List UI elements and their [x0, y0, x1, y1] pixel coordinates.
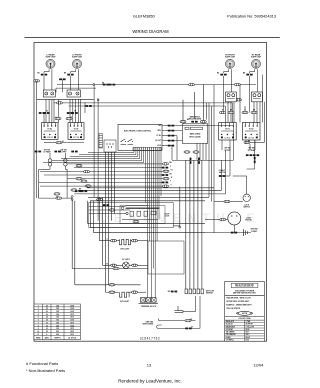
surface switch right 2 [252, 92, 263, 102]
connector bus3 [54, 193, 60, 196]
svg-text:3173: 3173 [70, 314, 74, 316]
svg-text:8: 8 [38, 325, 39, 327]
connector door lock inner [133, 220, 139, 223]
connector vert pair a [190, 158, 192, 164]
connector below relay board 1 [184, 151, 190, 154]
surface element right-rear [251, 54, 262, 69]
svg-text:L2 OUT: L2 OUT [155, 140, 162, 142]
connector below label right a [246, 154, 252, 156]
oven lamp [122, 259, 131, 269]
diagram border frame [34, 43, 267, 342]
svg-text:GRN GND: GRN GND [250, 229, 258, 231]
connectors on row right ends [163, 163, 169, 166]
svg-text:LT FRT: LT FRT [61, 152, 68, 154]
infinite switch left 2 [68, 123, 84, 140]
svg-text:H1 H2: H1 H2 [74, 129, 79, 131]
sensor connector strip [168, 289, 215, 295]
surface switch right 1 [226, 92, 237, 102]
svg-text:8: 8 [46, 334, 47, 336]
svg-text:SCREW: SCREW [251, 231, 257, 233]
svg-text:18: 18 [46, 305, 48, 307]
wire EOC LT BL [162, 135, 177, 137]
wires below relay board [197, 143, 206, 160]
svg-text:L1 P L2: L1 P L2 [248, 137, 254, 139]
svg-text:7: 7 [38, 322, 39, 324]
svg-text:GRN GND: GRN GND [146, 321, 154, 323]
connector relay board mid [191, 121, 197, 123]
wire bus A [57, 84, 256, 86]
svg-text:YELLOW STRIPE.: YELLOW STRIPE. [226, 308, 241, 310]
oven light coil 1 [120, 239, 131, 250]
svg-text:105: 105 [56, 305, 59, 307]
svg-text:BRL: BRL [158, 130, 161, 132]
surface element left-rear [45, 54, 56, 69]
wire inf right drop [229, 140, 231, 160]
connector relay board left [180, 120, 186, 123]
oven light coil 2 [120, 292, 131, 303]
svg-text:EXAMPLE - GREEN WIRE WITH: EXAMPLE - GREEN WIRE WITH [226, 304, 252, 307]
wire element leads [250, 69, 258, 92]
vertical wire long left pair [37, 81, 99, 221]
connector neutral wire [185, 328, 191, 330]
svg-text:OVN LIGHT: OVN LIGHT [120, 301, 130, 303]
svg-text:BEFORE SERVICING UNIT.: BEFORE SERVICING UNIT. [233, 293, 256, 295]
title underline rule [25, 37, 280, 39]
wire door lock inner 3 [89, 213, 126, 215]
connector bottom wire2b [132, 291, 138, 294]
wire coil1 to loop [137, 240, 148, 242]
svg-text:WARNING: WARNING [235, 284, 254, 288]
svg-text:T: T [170, 181, 171, 183]
svg-text:BK-W: BK-W [246, 337, 251, 339]
connector door lock left [103, 204, 109, 206]
connector vert pair b [198, 158, 200, 164]
wire conn drop [61, 79, 63, 92]
svg-text:BROIL 3400W: BROIL 3400W [189, 136, 200, 139]
wire EOC L2 OUT [162, 140, 182, 142]
svg-text:16: 16 [46, 314, 48, 316]
svg-text:SENSOR: SENSOR [206, 293, 214, 295]
svg-text:6: 6 [38, 320, 39, 322]
wire door lock inner 1 [89, 206, 126, 208]
connector element lead [246, 74, 252, 76]
wire loop over switch [56, 87, 96, 89]
wire loop rectangle [148, 241, 184, 274]
svg-text:BR-BROWN: BR-BROWN [226, 326, 236, 328]
hot surface indicator light 2 [64, 159, 67, 166]
neutral wire bottom [157, 296, 200, 328]
connector right band b [228, 111, 234, 114]
connector relay board right [200, 120, 206, 123]
junction right of door lock [179, 226, 181, 228]
connector element lead [67, 74, 73, 76]
small box left of EOC [104, 140, 116, 152]
connector bottom wire2 [109, 291, 115, 294]
svg-text:5107: 5107 [70, 334, 74, 336]
svg-text:V-PURPLE: V-PURPLE [226, 340, 234, 342]
connector bus E [57, 102, 63, 105]
connector lock switch [224, 200, 230, 203]
wire aux bottom [72, 268, 148, 270]
svg-text:GN-GREEN: GN-GREEN [226, 332, 235, 334]
connector below inf switch right [244, 141, 250, 144]
svg-text:* Non-Illustrated Parts: * Non-Illustrated Parts [26, 368, 65, 373]
surface element right-front [225, 55, 236, 69]
wire long bus 1 [87, 187, 214, 189]
wire fan-out from EOC left pins [43, 150, 144, 162]
connector below inf switch left [56, 141, 62, 144]
door lock switch assembly [89, 203, 173, 228]
svg-text:150: 150 [56, 314, 59, 316]
svg-text:5107: 5107 [70, 331, 74, 333]
svg-text:WIRING DIAGRAM: WIRING DIAGRAM [132, 29, 169, 34]
wires between switches and infinite switches left [44, 99, 85, 123]
svg-text:ELECTRONIC OVEN CONTROL: ELECTRONIC OVEN CONTROL [124, 131, 152, 133]
svg-text:150: 150 [56, 328, 59, 330]
connector lock motor [220, 218, 226, 221]
horizontal rows crossing bundle [39, 164, 163, 186]
svg-text:NOTE: NOTE [242, 313, 248, 315]
hot surface indicator light 1 [48, 159, 51, 166]
connector EOC wire L2 OUT [168, 140, 174, 142]
wire bus D left [37, 99, 94, 101]
connector left of lamp [111, 264, 117, 267]
svg-text:1015: 1015 [70, 325, 74, 327]
connector lock switch top [219, 175, 225, 177]
vertical bundle center-left [106, 152, 115, 292]
svg-text:TRACER WIRE - WIRE COLOR: TRACER WIRE - WIRE COLOR [226, 297, 251, 300]
wire bus F drop [224, 106, 226, 123]
svg-text:R-RED: R-RED [226, 337, 232, 339]
wire element leads [224, 69, 232, 92]
svg-text:200: 200 [56, 331, 59, 333]
svg-text:MOTOR: MOTOR [245, 220, 252, 222]
svg-text:150: 150 [56, 322, 59, 324]
svg-text:9: 9 [38, 328, 39, 330]
connector label left [35, 151, 41, 153]
connector left of sensor strip [171, 291, 177, 293]
svg-text:AWG: AWG [45, 336, 50, 339]
connector bottom wire1 [109, 284, 115, 287]
svg-text:SURF UNIT: SURF UNIT [251, 57, 262, 59]
lock motor [228, 212, 253, 225]
svg-text:Publication No: 5995424313: Publication No: 5995424313 [227, 14, 276, 19]
connector above inf switch left 2 [66, 117, 72, 120]
junction bottom left feed a [71, 196, 73, 198]
wire bus to relay conn 3 [202, 84, 204, 120]
connector door feed [97, 198, 103, 201]
connector pair inf left a [39, 112, 45, 114]
wire bus to relay conn 1 [182, 100, 184, 121]
svg-text:150: 150 [56, 317, 59, 319]
svg-text:105: 105 [56, 311, 59, 313]
svg-text:R-W: R-W [246, 340, 250, 342]
connector EOC wire LT BL [168, 135, 174, 137]
connector below label right b [253, 154, 259, 156]
svg-text:4: 4 [38, 313, 39, 316]
connector right band c [242, 111, 248, 114]
connector element lead [220, 74, 226, 76]
connector right band a [220, 111, 226, 114]
wire element leads [71, 69, 79, 92]
svg-text:H1 H2: H1 H2 [48, 129, 53, 131]
svg-text:Y-YELLOW: Y-YELLOW [246, 326, 255, 328]
wires between switches and infinite switches right [224, 85, 261, 123]
connector bus F [85, 105, 91, 107]
svg-text:1015: 1015 [70, 308, 74, 310]
connector left of coil1 [111, 239, 117, 242]
wire right col drop [254, 140, 256, 169]
svg-text:L1 P L2: L1 P L2 [225, 137, 231, 139]
wire bus E drop [232, 103, 234, 123]
surface element left-front [72, 55, 83, 69]
terminal block [139, 298, 159, 308]
wire EOC L2 IN [162, 145, 172, 147]
svg-text:10: 10 [46, 328, 48, 330]
wire gauge table [34, 304, 80, 340]
svg-text:18: 18 [46, 331, 48, 333]
svg-text:105: 105 [56, 308, 59, 310]
infinite switch right 1 [219, 123, 237, 141]
connector pair inf left c [67, 112, 73, 114]
wire EOC BK [162, 125, 234, 127]
connector vert right col [254, 157, 256, 163]
wire bottom 1 [75, 284, 110, 286]
connectors on fan rows left [76, 164, 82, 167]
vertical bundle sensor strip [186, 160, 202, 289]
svg-text:NOTED FIRST, STRIPE NEXT.: NOTED FIRST, STRIPE NEXT. [226, 301, 250, 303]
svg-text:3173: 3173 [70, 322, 74, 324]
svg-text:12/04: 12/04 [253, 363, 264, 368]
wire junction drop [179, 187, 181, 227]
wire below inf switches [62, 142, 84, 144]
wire bus to relay conn 2 [194, 92, 196, 119]
connector pair inf left b [43, 112, 49, 114]
wire long bus 2 [78, 189, 222, 191]
connector bus2b [81, 190, 87, 192]
wire lamp to loop [137, 264, 148, 266]
connector bus2 [75, 190, 81, 192]
wire bus E [54, 102, 233, 104]
svg-text:1015: 1015 [70, 311, 74, 313]
svg-text:SWITCH: SWITCH [219, 172, 226, 174]
connector ground wire [185, 319, 191, 322]
svg-text:SURF UNIT: SURF UNIT [225, 57, 236, 59]
infinite switch left 1 [42, 123, 58, 140]
connector between right switches [236, 99, 242, 102]
svg-text:BL-BLUE: BL-BLUE [226, 324, 233, 326]
svg-text:1015: 1015 [70, 305, 74, 307]
svg-text:200: 200 [56, 334, 59, 336]
svg-text:13: 13 [147, 363, 152, 368]
svg-text:12: 12 [46, 322, 48, 324]
wire long bus 4 [88, 196, 209, 198]
svg-text:TERMINAL BLOCK: TERMINAL BLOCK [141, 305, 157, 308]
svg-text:RELAY BOARD: RELAY BOARD [189, 118, 202, 121]
svg-text:14: 14 [46, 316, 48, 319]
connector right band d [251, 111, 257, 114]
surface switch left 1 [43, 90, 55, 97]
verticals from bottom-left junction [72, 197, 205, 284]
svg-text:16: 16 [46, 311, 48, 313]
connector aux bottom [113, 267, 119, 270]
svg-text:5: 5 [38, 317, 39, 319]
connector right of coil1 [132, 239, 138, 242]
EOC pin vertical bundle [146, 150, 161, 297]
connector right of lamp [132, 264, 138, 267]
chassis ground [205, 229, 258, 236]
svg-text:3: 3 [38, 311, 39, 313]
connector below relay board 2 [193, 151, 199, 154]
verticals right column [207, 85, 235, 233]
wire long bus 5 [90, 200, 205, 202]
lock switch [243, 194, 251, 208]
svg-text:3173: 3173 [70, 317, 74, 319]
svg-text:1015: 1015 [70, 320, 74, 322]
wire EOC BRL [162, 130, 182, 132]
junction left mid [86, 185, 88, 187]
EOC left connector column [99, 134, 102, 149]
svg-text:105: 105 [56, 320, 59, 322]
connector bus A1 [103, 84, 109, 86]
verticals far right [250, 75, 265, 143]
wire bus F [69, 105, 226, 107]
warning box [225, 282, 265, 342]
ground wire to terminal block [159, 319, 196, 321]
EOC connector strip [133, 147, 161, 150]
wire lock switch drop [246, 176, 248, 194]
wire door lock inner 2 [89, 209, 130, 211]
svg-text:W-WHITE: W-WHITE [246, 324, 253, 326]
connector EOC wire BRL [168, 130, 174, 132]
svg-text:OVEN LT: OVEN LT [219, 170, 226, 172]
wire element leads [44, 69, 52, 92]
svg-text:1: 1 [38, 305, 39, 307]
connector door lock inner wire [109, 209, 115, 212]
connector bus A3 [189, 83, 195, 86]
svg-text:LT BL: LT BL [156, 135, 161, 137]
svg-text:18: 18 [46, 308, 48, 310]
svg-text:H1 H2: H1 H2 [249, 129, 254, 131]
junction bottom left feed b [71, 199, 73, 201]
wire EOC LTBL drop [176, 136, 178, 160]
junction bus A [93, 84, 95, 86]
wire to lock motor [205, 219, 220, 221]
connector upper mid left [59, 78, 65, 80]
wire right col bend [247, 168, 255, 170]
connector element lead [41, 74, 47, 76]
svg-text:10: 10 [37, 331, 39, 333]
infinite switch right 2 [243, 123, 261, 141]
svg-text:GLEFM385D: GLEFM385D [133, 15, 155, 19]
wire collector below relay board [172, 160, 234, 162]
svg-text:WIRE SCREW: WIRE SCREW [143, 324, 154, 326]
svg-text:L1 P L2: L1 P L2 [73, 137, 79, 139]
svg-text:2: 2 [38, 308, 39, 310]
connector bus A2 [109, 84, 115, 86]
svg-text:SURF UNIT: SURF UNIT [45, 57, 56, 59]
connector left frame [34, 80, 40, 83]
oven relay board box [182, 124, 207, 144]
svg-text:L1 P L2: L1 P L2 [47, 137, 53, 139]
svg-text:105: 105 [56, 325, 59, 327]
svg-text:OV LIGHT: OV LIGHT [122, 259, 131, 261]
svg-text:Rendered by LeadVenture, Inc.: Rendered by LeadVenture, Inc. [118, 378, 182, 383]
connector bus A4 [234, 83, 240, 86]
svg-text:H1 H2: H1 H2 [225, 129, 230, 131]
wire lock sw top [219, 175, 230, 177]
svg-text:SWITCH: SWITCH [243, 207, 250, 209]
svg-text:COLOR CODE: COLOR CODE [238, 318, 251, 320]
wire long bus 3 [74, 193, 225, 195]
wire bottom 2 [106, 291, 110, 293]
svg-text:# Functional Parts: # Functional Parts [26, 361, 58, 366]
svg-text:3173: 3173 [70, 328, 74, 330]
connector above inf switch left [55, 117, 61, 120]
connector EOC wire BK [168, 125, 174, 127]
connector label mid [54, 151, 60, 153]
wire to lock switch [230, 201, 243, 203]
electronic oven control box [118, 124, 162, 150]
svg-text:W-BL: W-BL [246, 329, 250, 331]
svg-text:11: 11 [37, 334, 39, 336]
wire EOC L2IN drop [171, 146, 173, 160]
svg-text:14: 14 [46, 319, 48, 322]
connector label right [71, 151, 77, 153]
wires indicator lights [39, 153, 67, 198]
svg-text:316417762: 316417762 [140, 336, 160, 340]
connector pair inf left d [71, 112, 77, 114]
connector EOC wire L2 IN [168, 145, 174, 147]
wire EOC BK drop [233, 126, 235, 160]
junction bus D [97, 99, 99, 101]
svg-text:TEMP°C: TEMP°C [54, 337, 61, 339]
svg-text:SURF UNIT: SURF UNIT [72, 57, 83, 59]
svg-text:OVN LIGHT: OVN LIGHT [120, 248, 130, 250]
surface switch left 2 [67, 90, 81, 97]
connector bottom left feed [56, 197, 62, 200]
oven temp sensor probe [175, 296, 196, 313]
svg-text:BAKE 2585W: BAKE 2585W [190, 133, 201, 136]
svg-text:12: 12 [46, 325, 48, 327]
svg-text:UL STYLE: UL STYLE [68, 337, 77, 339]
wire bottom left feed [39, 197, 72, 199]
tiny wire labels [37, 73, 256, 329]
